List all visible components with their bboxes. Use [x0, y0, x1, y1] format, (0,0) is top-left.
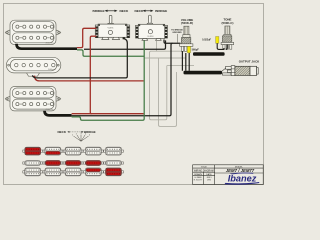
wire: gray ground loop C: [167, 65, 194, 67]
wire: black SW2 right lug to bridge ground: [164, 40, 181, 44]
wire: green conductor neck to SW2: [77, 50, 144, 56]
svg-text:560pF: 560pF: [192, 49, 200, 52]
volume pot U1: [181, 18, 193, 25]
legend pos5 neck icon: [104, 147, 124, 155]
svg-text:Ibanez: Ibanez: [228, 174, 257, 184]
wire: green conductor bridge to SW2: [72, 40, 145, 120]
legend pos2 bridge icon: [43, 168, 63, 176]
switch SW2 (5-way lever, rear view): [136, 15, 168, 40]
svg-text:DiMarzio: DiMarzio: [46, 109, 55, 111]
svg-text:VLX91: VLX91: [107, 27, 114, 29]
Ibanez logo: [225, 172, 260, 184]
legend position fan: [74, 135, 89, 142]
svg-text:R. SCOTT: R. SCOTT: [194, 180, 203, 182]
svg-text:(500K-C): (500K-C): [222, 21, 234, 25]
legend pos3 middle icon: [63, 160, 83, 165]
legend pos5 bridge icon: [104, 168, 124, 176]
svg-text:0.022uF: 0.022uF: [202, 38, 211, 41]
legend pos3 neck icon: [63, 147, 83, 155]
svg-text:GROUND: GROUND: [172, 32, 182, 34]
wire: red conductor bridge: [72, 113, 144, 115]
svg-text:TITLE: TITLE: [201, 167, 207, 169]
legend pos2 neck icon: [43, 147, 63, 155]
legend pos3 bridge icon: [63, 168, 83, 176]
svg-text:DiMarzio: DiMarzio: [48, 69, 55, 71]
label BRIDGE-NECK (switch SW1): [93, 9, 130, 13]
pickup B (bridge humbucker): [5, 87, 60, 111]
tone pot U2: [222, 18, 234, 25]
label TO BRIDGE GROUND: [171, 30, 183, 34]
legend pos1 neck icon: [23, 147, 43, 155]
legend pos4 middle icon: [83, 160, 103, 165]
legend pos5 middle icon: [104, 160, 124, 165]
capacitor C1 0.022uF: [216, 37, 219, 44]
border frame: [4, 4, 264, 185]
svg-text:(500K-R): (500K-R): [181, 21, 193, 25]
wire: neck pickup cable (black jacket): [17, 44, 78, 49]
legend label NECK-BRIDGE: [58, 130, 96, 134]
capacitor C2 560pF: [187, 46, 190, 52]
wire: red conductor neck to SW1 lug1: [77, 28, 96, 47]
svg-text:NECK: NECK: [58, 130, 67, 134]
label NECK-BRIDGE (switch SW2): [135, 9, 168, 13]
svg-text:DATE: DATE: [206, 173, 212, 176]
legend pos4 neck icon: [83, 147, 103, 155]
wire: gray ground loop A (switch SW2 to jack sleeve): [150, 40, 186, 119]
wires: vol pot lug stubs: [182, 51, 189, 70]
svg-text:1995: 1995: [207, 180, 211, 182]
svg-text:OUTPUT JACK: OUTPUT JACK: [239, 59, 260, 63]
wire: red SW1 lug4 to middle pickup: [90, 36, 96, 114]
legend pos2 middle icon: [43, 160, 63, 165]
legend pos4 bridge icon: [83, 168, 103, 176]
wire: bridge pickup cable (black jacket): [45, 111, 72, 116]
svg-text:BRIDGE: BRIDGE: [93, 9, 105, 13]
switch SW1 (5-way lever, front view): [95, 15, 129, 39]
wire: black conductor bridge to vol pot: [72, 43, 173, 115]
wire: black conductor neck-sw2: [84, 40, 166, 49]
svg-text:NECK: NECK: [120, 9, 130, 13]
pickup N (neck humbucker): [5, 20, 60, 44]
title block: [193, 165, 264, 185]
shielded cable vol-tone: [193, 52, 225, 56]
svg-text:WIRING DIAGRAM: WIRING DIAGRAM: [194, 169, 214, 172]
legend pos1 middle icon: [23, 160, 43, 165]
svg-text:JEM7 / JEM77: JEM7 / JEM77: [226, 168, 255, 173]
pickup M (middle single coil): [6, 57, 60, 76]
svg-text:NECK: NECK: [135, 9, 145, 13]
legend pos1 bridge icon: [23, 168, 43, 176]
svg-text:DRAWN: DRAWN: [194, 173, 202, 176]
wire: gray ground loop B (vol pot to jack): [145, 58, 186, 126]
shielded cable to jack: [184, 71, 223, 75]
wire: cap to tone lugs: [217, 43, 227, 49]
svg-text:BRIDGE: BRIDGE: [155, 9, 167, 13]
svg-text:VLX53: VLX53: [147, 36, 154, 38]
wire: black middle pickup to SW1 right lug: [123, 37, 125, 39]
svg-text:DiMarzio: DiMarzio: [46, 43, 55, 45]
